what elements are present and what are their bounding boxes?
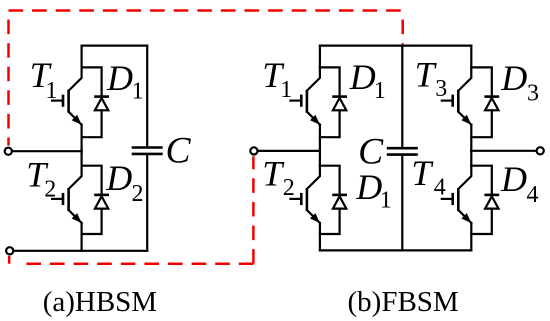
transistor T2 — [52, 166, 82, 223]
svg-text:1: 1 — [280, 77, 292, 103]
terminal (HBSM bottom) — [6, 247, 13, 254]
FBSM bottom rail — [320, 249, 471, 251]
node: FBSM left terminal wire — [258, 150, 320, 152]
svg-text:4: 4 — [527, 182, 539, 208]
svg-text:1: 1 — [132, 79, 144, 105]
svg-text:D: D — [500, 58, 527, 98]
transistor T4 — [442, 166, 472, 223]
svg-text:D: D — [106, 58, 133, 98]
svg-text:T: T — [411, 153, 434, 193]
node: FBSM right terminal wire — [471, 150, 536, 152]
wire — [319, 46, 321, 68]
transistor T1 — [52, 67, 82, 124]
red dashed box top edge — [9, 9, 403, 12]
terminal (FBSM left) — [250, 147, 257, 154]
red dashed box left edge — [7, 11, 10, 146]
diode D1 — [320, 166, 347, 234]
wire — [319, 125, 321, 151]
capacitor C (FBSM) — [387, 46, 418, 251]
svg-text:2: 2 — [44, 176, 56, 202]
svg-text:3: 3 — [435, 76, 447, 102]
red dashed box bottom edge — [21, 262, 254, 265]
diode D4 — [471, 166, 499, 234]
svg-text:1: 1 — [45, 78, 57, 104]
svg-text:D: D — [500, 159, 527, 199]
red dashed box left lower stub — [8, 256, 11, 264]
diode D3 — [471, 67, 499, 137]
svg-text:2: 2 — [283, 175, 295, 201]
transistor T2 — [290, 166, 320, 223]
svg-text:1: 1 — [374, 78, 386, 104]
capacitor C (HBSM) — [132, 46, 163, 251]
svg-text:(b)FBSM: (b)FBSM — [348, 286, 459, 318]
FBSM top rail — [320, 44, 471, 46]
terminal (HBSM mid) — [5, 148, 12, 155]
svg-text:3: 3 — [527, 81, 539, 107]
wire — [470, 46, 472, 68]
HBSM bottom rail — [14, 250, 147, 252]
HBSM top rail — [82, 44, 148, 46]
wire — [80, 46, 82, 68]
svg-text:(a)HBSM: (a)HBSM — [43, 286, 157, 318]
svg-text:T: T — [415, 54, 438, 94]
wire — [80, 151, 82, 166]
wire — [80, 223, 82, 251]
svg-text:D: D — [105, 158, 132, 198]
svg-text:C: C — [358, 131, 384, 172]
transistor T3 — [442, 67, 472, 124]
diode D1 — [82, 67, 109, 137]
svg-text:D: D — [355, 167, 382, 207]
node: HBSM midpoint wire — [13, 150, 82, 152]
svg-text:C: C — [166, 131, 192, 172]
svg-text:2: 2 — [132, 181, 144, 207]
transistor T1 — [290, 67, 320, 124]
red dashed box right lower edge — [252, 156, 255, 264]
red dashed box right upper edge — [401, 11, 404, 45]
diode D1 — [320, 67, 347, 137]
terminal (FBSM right) — [537, 147, 544, 154]
wire — [470, 125, 472, 151]
wire — [319, 151, 321, 166]
diode D2 — [82, 166, 109, 234]
svg-text:4: 4 — [434, 175, 446, 201]
svg-text:1: 1 — [380, 188, 392, 214]
wire — [470, 151, 472, 166]
svg-text:D: D — [349, 57, 376, 97]
wire — [319, 223, 321, 250]
wire — [470, 223, 472, 250]
wire — [80, 125, 82, 152]
